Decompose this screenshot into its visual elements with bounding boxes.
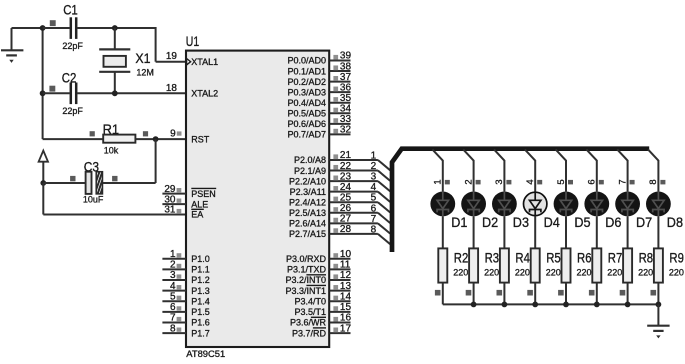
svg-text:R3: R3 [485,250,500,265]
LED D6 [584,192,609,217]
LED D5 [554,192,579,217]
svg-text:R4: R4 [515,250,530,265]
svg-text:P0.1/AD1: P0.1/AD1 [287,66,326,76]
svg-text:P0.7/AD7: P0.7/AD7 [287,130,326,140]
pin label P3.0/RXD [286,254,327,264]
svg-text:28: 28 [340,224,352,235]
svg-text:P3.0/RXD: P3.0/RXD [286,254,327,264]
wire: C1 row to XTAL1 (pin 19) [156,27,186,62]
svg-text:220: 220 [453,268,468,278]
svg-text:3: 3 [493,179,504,184]
svg-text:22: 22 [340,161,352,172]
svg-text:R9: R9 [669,250,684,265]
svg-text:8: 8 [371,224,377,235]
svg-text:P3.3/INT1: P3.3/INT1 [285,286,326,296]
svg-text:10uF: 10uF [83,195,104,205]
wire: R9 to ground rail [651,283,659,305]
wire: bus entry to D5 column [555,149,573,191]
svg-text:30: 30 [164,194,176,205]
svg-text:35: 35 [340,93,352,104]
svg-text:P2.3/A11: P2.3/A11 [290,187,326,197]
svg-text:EA: EA [191,210,203,220]
wire: R4 to ground rail [497,283,505,305]
svg-text:P1.0: P1.0 [191,254,210,264]
wire: D8 to R9 [657,216,659,248]
wire: bus entry to D4 column [524,149,542,191]
node: rail junction x=597 [594,302,600,308]
svg-text:XTAL2: XTAL2 [191,89,218,99]
pin 16 stub [330,313,352,324]
svg-text:ALE: ALE [191,199,208,209]
wire: VCC to EA (pin 31) [43,183,186,215]
pin label P3.2/INT0 [285,275,326,285]
crystal X1 12M [99,28,154,93]
svg-text:D8: D8 [667,215,683,230]
pin 28 stub [330,224,352,235]
pin 14 stub [330,291,352,302]
wire 5: P2.4 to bus [351,193,391,213]
pin 30 stub [162,194,186,205]
resistor R2 220 [438,248,468,282]
wire: D2 to R3 [473,216,475,248]
resistor R1 10k [43,122,186,156]
svg-text:24: 24 [340,182,352,193]
svg-text:P3.2/INT0: P3.2/INT0 [285,275,326,285]
wire 8: P2.7 to bus [351,224,391,244]
svg-text:R2: R2 [454,250,469,265]
pin 13 stub [330,281,352,292]
svg-text:R5: R5 [546,250,561,265]
svg-text:11: 11 [340,260,351,271]
svg-text:2: 2 [462,179,473,184]
node: rail junction x=504 [502,302,508,308]
node: junction RST [153,136,159,142]
pin label P3.6/WR [290,317,327,327]
svg-text:P2.2/A10: P2.2/A10 [289,176,326,186]
svg-text:12M: 12M [136,67,154,77]
svg-text:P1.1: P1.1 [191,265,210,275]
pin 25 stub [330,192,352,203]
wire: bus entry to D2 column [462,149,480,191]
node: rail junction x=566 [563,302,569,308]
svg-text:8: 8 [647,179,658,184]
LED D3 [492,192,517,217]
svg-text:P0.5/AD5: P0.5/AD5 [287,108,326,118]
svg-text:P2.5/A13: P2.5/A13 [289,208,326,218]
svg-text:34: 34 [340,103,352,114]
pin label P3.5/T1 [294,307,326,317]
svg-text:15: 15 [340,302,352,313]
svg-text:6: 6 [371,203,377,214]
wire: D4 to R5 [534,216,536,248]
svg-text:4: 4 [371,182,377,193]
svg-text:D7: D7 [636,215,652,230]
wire: R8 to ground rail [620,283,628,305]
pin 12 stub [330,270,352,281]
wire: bus entry to D1 column [432,149,450,191]
svg-text:16: 16 [340,313,352,324]
power VCC arrow [39,151,48,183]
pin 27 stub [330,214,352,225]
svg-text:R1: R1 [103,122,120,137]
LED D4 [524,192,547,217]
pin 1 stub [162,249,186,260]
svg-text:X1: X1 [135,51,150,66]
wire: bus entry to D7 column [616,149,634,191]
svg-text:27: 27 [340,214,352,225]
svg-text:33: 33 [340,114,352,125]
resistor R5 220 [531,248,561,282]
svg-text:23: 23 [340,171,352,182]
node: junction X1/C2 row [112,90,118,96]
svg-text:3: 3 [371,172,377,183]
pin 33 stub [330,114,352,125]
pin label P3.7/RD [292,328,327,338]
svg-text:R8: R8 [639,250,654,265]
svg-text:5: 5 [555,179,566,184]
svg-text:10k: 10k [104,146,119,156]
svg-text:19: 19 [166,51,178,62]
svg-text:P3.1/TXD: P3.1/TXD [287,265,327,275]
svg-text:26: 26 [340,203,352,214]
pin 38 stub [330,61,352,72]
IC U1 AT89C51 (microcontroller) [186,34,329,359]
wire: D7 to R8 [627,216,629,248]
wire: bottom ground rail [443,303,659,305]
pin 2 stub [162,260,186,271]
node: rail junction x=658 [656,302,662,308]
svg-text:P3.7/RD: P3.7/RD [292,328,327,338]
svg-text:1: 1 [371,151,377,162]
svg-text:P2.4/A12: P2.4/A12 [289,197,326,207]
svg-text:29: 29 [164,184,176,195]
svg-text:220: 220 [577,268,592,278]
svg-text:21: 21 [340,150,352,161]
pin 8 stub [162,323,186,334]
pin 7 stub [162,313,186,324]
LED D1 [430,192,455,217]
ground (bottom-right) [647,304,669,338]
wire: bus entry to D8 column [647,149,665,191]
svg-text:13: 13 [340,281,352,292]
svg-text:37: 37 [340,72,352,83]
svg-text:1: 1 [170,249,176,260]
wire: D1 to R2 [442,216,444,248]
svg-text:P2.6/A14: P2.6/A14 [289,219,326,229]
bus (thick) from P2 pins to LEDs [392,149,649,252]
svg-text:3: 3 [170,270,176,281]
svg-text:25: 25 [340,192,352,203]
svg-text:7: 7 [371,214,377,225]
svg-text:P3.4/T0: P3.4/T0 [294,296,326,306]
svg-text:R6: R6 [577,250,592,265]
wire 6: P2.5 to bus [351,203,391,223]
svg-text:9: 9 [170,128,176,139]
resistor R7 220 [592,248,622,282]
svg-text:4: 4 [524,179,535,184]
svg-text:2: 2 [371,161,377,172]
LED D8 [646,192,671,217]
svg-text:P2.1/A9: P2.1/A9 [294,166,326,176]
wire: bus entry to D3 column [493,149,511,191]
svg-text:8: 8 [170,323,176,334]
svg-text:RST: RST [191,134,210,144]
svg-text:P0.2/AD2: P0.2/AD2 [287,77,326,87]
svg-text:18: 18 [166,83,178,94]
svg-text:P1.3: P1.3 [191,286,210,296]
node: rail junction x=535 [532,302,538,308]
wire: D3 to R4 [503,216,505,248]
pin 21 stub [330,150,352,161]
svg-text:5: 5 [371,193,377,204]
svg-text:U1: U1 [186,34,199,49]
svg-text:6: 6 [586,179,597,184]
svg-text:220: 220 [546,268,561,278]
svg-text:2: 2 [170,260,176,271]
pin 24 stub [330,182,352,193]
pin 3 stub [162,270,186,281]
pin 39 stub [330,51,352,62]
svg-text:P2.0/A8: P2.0/A8 [294,155,326,165]
pin 34 stub [330,103,352,114]
wire: R3 to ground rail [466,283,474,305]
pin 22 stub [330,161,352,172]
svg-text:14: 14 [340,291,352,302]
pin label P3.1/TXD [287,265,327,275]
pin 26 stub [330,203,352,214]
wire: R7 to ground rail [589,283,597,305]
pin label P3.3/INT1 [285,285,326,295]
svg-text:12: 12 [340,270,352,281]
pin label P3.4/T0 [294,296,326,306]
capacitor C3 10uF (electrolytic) [43,139,155,204]
svg-text:32: 32 [340,125,352,136]
svg-text:39: 39 [340,51,352,62]
pin 6 stub [162,302,186,313]
svg-text:P2.7/A15: P2.7/A15 [289,229,326,239]
svg-text:AT89C51: AT89C51 [186,348,225,359]
svg-text:220: 220 [484,268,499,278]
wire: D5 to R6 [565,216,567,248]
resistor R3 220 [469,248,499,282]
svg-text:C3: C3 [84,159,99,174]
wire 7: P2.6 to bus [351,214,391,234]
svg-text:R7: R7 [608,250,623,265]
wire: D6 to R7 [596,216,598,248]
svg-text:36: 36 [340,82,352,93]
svg-text:10: 10 [340,249,352,260]
node: junction C2 row [40,90,46,96]
svg-text:22pF: 22pF [62,106,83,116]
svg-text:P0.3/AD3: P0.3/AD3 [287,87,326,97]
pin 4 stub [162,281,186,292]
pin XTAL1 clock chevron [187,59,191,65]
resistor R9 220 [654,248,684,282]
svg-text:P0.0/AD0: P0.0/AD0 [287,56,326,66]
pin 31 stub [164,205,181,216]
pin 29 stub [162,184,186,195]
node: junction VCC/C3/EA [40,180,46,186]
LED D7 [615,192,640,217]
svg-text:1: 1 [432,179,443,184]
pin 15 stub [330,302,352,313]
node: rail junction x=474 [471,302,477,308]
svg-text:D5: D5 [574,215,590,230]
svg-text:P3.5/T1: P3.5/T1 [294,307,326,317]
pin 23 stub [330,171,352,182]
svg-text:P0.6/AD6: P0.6/AD6 [287,119,326,129]
pin 11 stub [330,260,351,271]
wire 3: P2.2 to bus [351,172,391,192]
pin 37 stub [330,72,352,83]
svg-text:17: 17 [340,323,352,334]
svg-text:D3: D3 [513,215,529,230]
svg-text:7: 7 [170,313,176,324]
svg-text:P1.6: P1.6 [191,318,210,328]
svg-text:C2: C2 [62,71,77,86]
pin 10 stub [330,249,352,260]
svg-text:220: 220 [607,268,622,278]
pin 36 stub [330,82,352,93]
wire 1: P2.0 to bus [351,151,391,171]
node: junction C1/X1 [112,25,118,31]
capacitor C1 [43,3,156,51]
svg-text:D1: D1 [451,215,467,230]
svg-text:22pF: 22pF [62,41,83,51]
svg-text:PSEN: PSEN [191,189,216,199]
LED D2 [461,192,486,217]
node: rail junction x=628 [625,302,631,308]
svg-text:4: 4 [170,281,176,292]
wire: R2 to ground rail [435,283,443,305]
wire: ground rail x=42.6 from C1 row to R1 row [42,28,44,139]
svg-text:D4: D4 [544,215,561,230]
svg-text:220: 220 [515,268,530,278]
svg-text:P1.4: P1.4 [191,296,210,306]
svg-text:D6: D6 [605,215,621,230]
svg-text:C1: C1 [63,3,78,18]
node: junction C1 row / ground [40,25,46,31]
pin 17 stub [330,323,352,334]
resistor R6 220 [562,248,592,282]
svg-text:XTAL1: XTAL1 [191,57,218,67]
svg-text:6: 6 [170,302,176,313]
svg-text:5: 5 [170,291,176,302]
ground (top-left) [1,28,43,63]
svg-text:P1.5: P1.5 [191,307,210,317]
wire: R6 to ground rail [558,283,566,305]
svg-text:D2: D2 [482,215,498,230]
svg-text:7: 7 [616,179,627,184]
pin 32 stub [330,125,352,136]
wire 4: P2.3 to bus [351,182,391,202]
pin 5 stub [162,291,186,302]
svg-text:38: 38 [340,61,352,72]
svg-text:P1.7: P1.7 [191,328,210,338]
svg-text:P1.2: P1.2 [191,275,210,285]
capacitor C2 [43,71,186,117]
wire 2: P2.1 to bus [351,161,391,181]
wire: R5 to ground rail [527,283,535,305]
resistor R8 220 [623,248,653,282]
svg-text:31: 31 [164,205,176,216]
wire: bus entry to D6 column [586,149,604,191]
svg-text:P3.6/WR: P3.6/WR [290,318,327,328]
pin 35 stub [330,93,352,104]
resistor R4 220 [500,248,530,282]
svg-text:P0.4/AD4: P0.4/AD4 [287,98,326,108]
svg-text:220: 220 [638,268,653,278]
svg-text:220: 220 [669,268,684,278]
